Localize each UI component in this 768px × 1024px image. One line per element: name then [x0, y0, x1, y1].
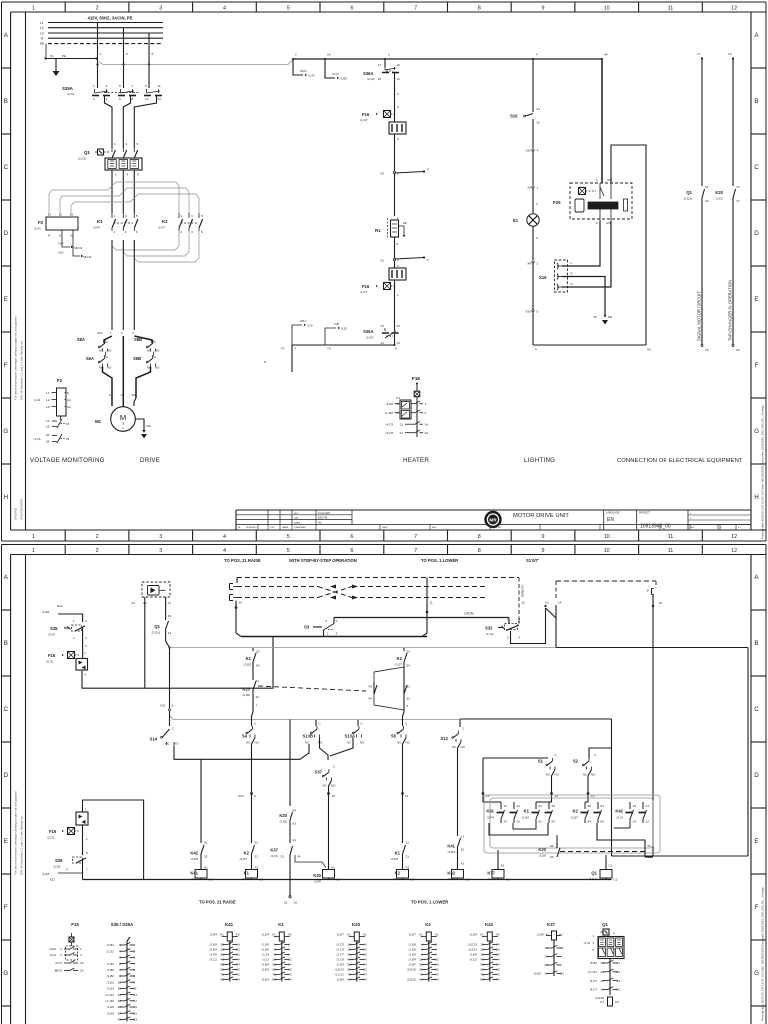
svg-text:11: 11	[405, 794, 408, 798]
svg-text:55: 55	[588, 804, 592, 808]
svg-text:12: 12	[731, 5, 737, 11]
svg-text:4: 4	[223, 534, 226, 540]
svg-text:4/N: 4/N	[606, 221, 611, 225]
svg-text:4: 4	[223, 5, 226, 11]
svg-text:X25: X25	[525, 149, 531, 153]
svg-text:/2,C5: /2,C5	[335, 943, 344, 947]
svg-text:K2: K2	[573, 809, 579, 814]
svg-text:/1,C12: /1,C12	[334, 973, 344, 977]
svg-text:X8: X8	[527, 262, 531, 266]
svg-text:A2: A2	[496, 933, 500, 937]
svg-text:44: 44	[369, 697, 373, 701]
F2 output contacts	[60, 416, 62, 420]
svg-text:11: 11	[668, 5, 674, 11]
svg-text:C: C	[319, 722, 321, 726]
svg-text:S8A: S8A	[77, 337, 85, 342]
svg-text:M1: M1	[95, 419, 102, 424]
svg-text:14: 14	[425, 423, 429, 427]
svg-text:Q1: Q1	[154, 624, 160, 629]
svg-text:N: N	[48, 234, 50, 238]
svg-text:/5,B3: /5,B3	[589, 961, 598, 965]
svg-text:F16: F16	[362, 284, 370, 289]
svg-text:/1,B2: /1,B2	[106, 962, 115, 966]
svg-text:/2,E9: /2,E9	[336, 978, 345, 982]
svg-text:/2,E15: /2,E15	[467, 943, 477, 947]
svg-text:1: 1	[425, 402, 427, 406]
svg-text:D: D	[4, 230, 9, 237]
svg-text:84: 84	[588, 820, 592, 824]
svg-text:/2,G2: /2,G2	[366, 77, 375, 81]
terminal X1 PE with earth	[45, 44, 47, 59]
svg-text:Printing date 2024-03-14T12:07: Printing date 2024-03-14T12:07:13 Order:…	[761, 405, 765, 539]
lighting return rail	[533, 344, 646, 346]
svg-text:A1: A1	[419, 933, 423, 937]
svg-text:D: D	[754, 772, 759, 779]
svg-text:/2,C4: /2,C4	[335, 948, 344, 952]
svg-text:/1,E6: /1,E6	[41, 610, 50, 614]
svg-text:/2,G1: /2,G1	[45, 660, 54, 664]
ground symbol	[53, 71, 60, 76]
svg-text:10913943_00: 10913943_00	[640, 524, 671, 530]
svg-text:G: G	[3, 970, 8, 977]
svg-text:2: 2	[93, 97, 95, 101]
svg-text:A2: A2	[288, 933, 292, 937]
svg-text:A1: A1	[67, 398, 71, 402]
svg-text:4: 4	[191, 230, 193, 234]
svg-text:REV.: REV.	[432, 527, 437, 529]
svg-text:CONNECTION OF ELECTRICAL EQUIP: CONNECTION OF ELECTRICAL EQUIPMENT	[617, 458, 743, 464]
svg-text:Für diese technische Unterlage: Für diese technische Unterlage Umfang so…	[14, 791, 18, 875]
svg-text:11: 11	[668, 548, 674, 554]
svg-text:22: 22	[381, 324, 385, 328]
svg-text:L1: L1	[46, 391, 50, 395]
wire S1 0/7 drop	[652, 595, 654, 857]
X19 wires	[562, 221, 600, 266]
svg-text:TO POS. 21 RAISE: TO POS. 21 RAISE	[224, 558, 261, 563]
svg-text:1: 1	[114, 214, 116, 218]
svg-text:NO: NO	[107, 349, 112, 353]
svg-text:Q1: Q1	[84, 150, 90, 155]
svg-text:14: 14	[80, 961, 84, 965]
svg-text:C: C	[154, 355, 156, 359]
svg-text:K41: K41	[447, 844, 455, 849]
svg-text:/1,D8: /1,D8	[407, 943, 416, 947]
svg-text:14: 14	[504, 820, 508, 824]
svg-text:A1: A1	[204, 866, 208, 870]
svg-text:S5: S5	[391, 734, 397, 739]
svg-text:F15: F15	[49, 829, 57, 834]
svg-text:X1: X1	[131, 601, 135, 605]
svg-text:10: 10	[604, 534, 610, 540]
svg-text:10: 10	[604, 548, 610, 554]
svg-text:A2: A2	[435, 933, 439, 937]
svg-text:DIN 34 Abschnitt 2.1 und 2.2 a: DIN 34 Abschnitt 2.1 und 2.2 alte Rechte…	[20, 340, 24, 400]
svg-text:PE: PE	[62, 54, 66, 58]
svg-text:/2,D4: /2,D4	[447, 850, 456, 854]
svg-text:13: 13	[545, 601, 549, 605]
wire phase drop 1	[97, 23, 99, 89]
svg-text:REV: REV	[294, 513, 299, 515]
svg-text:C: C	[106, 340, 108, 344]
svg-text:62: 62	[539, 820, 543, 824]
svg-text:LANGUAGE: LANGUAGE	[606, 512, 620, 515]
svg-text:X13I: X13I	[58, 251, 64, 255]
svg-text:MR: MR	[489, 518, 497, 523]
svg-text:Q1: Q1	[591, 871, 597, 876]
svg-text:S6A: S6A	[86, 356, 94, 361]
R1 PE stub	[399, 226, 405, 235]
svg-text:/3,J1: /3,J1	[615, 816, 623, 820]
svg-text:S13B: S13B	[303, 734, 313, 739]
svg-text:F: F	[4, 362, 8, 369]
svg-text:1: 1	[32, 5, 35, 11]
svg-text:6: 6	[407, 704, 409, 708]
svg-text:NC: NC	[583, 773, 587, 777]
svg-text:E1: E1	[513, 218, 519, 223]
svg-text:2: 2	[397, 264, 399, 268]
svg-text:6: 6	[119, 97, 121, 101]
svg-text:16: 16	[46, 419, 50, 423]
wire X1-31 to Q1 aux	[165, 597, 167, 620]
svg-text:S36A: S36A	[363, 329, 373, 334]
svg-text:8: 8	[395, 347, 397, 351]
svg-text:S32: S32	[485, 626, 493, 631]
svg-text:VOLTAGE MONITORING: VOLTAGE MONITORING	[30, 457, 105, 464]
svg-text:/2,E4: /2,E4	[469, 953, 478, 957]
svg-text:NO: NO	[255, 741, 260, 745]
svg-text:7: 7	[414, 548, 417, 554]
svg-text:S6B: S6B	[133, 356, 141, 361]
F16 relay box	[400, 400, 411, 419]
svg-text:4A: 4A	[604, 53, 608, 57]
svg-text:7: 7	[414, 534, 417, 540]
svg-text:K2: K2	[395, 871, 401, 876]
svg-text:L2: L2	[46, 398, 50, 402]
svg-text:18: 18	[46, 425, 50, 429]
wires S35A to Q1	[105, 96, 113, 149]
svg-text:4: 4	[223, 548, 226, 554]
svg-text:22: 22	[646, 820, 650, 824]
svg-text:/2,E5: /2,E5	[533, 972, 542, 976]
svg-text:K1: K1	[244, 871, 250, 876]
svg-text:/1,J2: /1,J2	[583, 941, 591, 945]
svg-text:53: 53	[256, 650, 260, 654]
svg-text:1: 1	[80, 947, 82, 951]
wires K1 to S8A/S6A	[111, 240, 113, 330]
grey routing wires to F2/K2	[49, 186, 112, 215]
wire S37 to K20 coil	[329, 781, 332, 868]
wires S1/S2 cluster	[483, 757, 548, 759]
svg-text:A1: A1	[331, 866, 335, 870]
svg-text:A2: A2	[67, 405, 71, 409]
svg-text:C: C	[172, 727, 174, 731]
wires Q1 to K1	[111, 170, 113, 213]
svg-text:/2,E10: /2,E10	[406, 978, 416, 982]
svg-text:S12: S12	[441, 736, 449, 741]
svg-text:K41: K41	[190, 871, 198, 876]
svg-text:C: C	[754, 706, 759, 713]
column number strip top	[11, 11, 766, 13]
svg-text:SMGSPOD: SMGSPOD	[15, 508, 18, 520]
svg-text:4: 4	[397, 137, 399, 141]
distribution wire node2 to 4A	[293, 58, 602, 60]
svg-text:NAME: NAME	[282, 526, 289, 529]
svg-text:/2,E4: /2,E4	[408, 958, 417, 962]
wire S14 to S13B	[174, 744, 309, 759]
svg-text:/2,D5: /2,D5	[521, 816, 530, 820]
svg-text:24: 24	[297, 855, 301, 859]
svg-text:1: 1	[596, 178, 598, 182]
svg-text:A1: A1	[272, 933, 276, 937]
svg-text:15: 15	[168, 614, 172, 618]
svg-text:X21: X21	[97, 331, 103, 335]
svg-text:/4,C8: /4,C8	[385, 431, 394, 435]
svg-text:S35 / S35A: S35 / S35A	[111, 922, 134, 927]
svg-text:/2,C6: /2,C6	[715, 197, 724, 201]
svg-text:/2,D5: /2,D5	[390, 857, 399, 861]
svg-text:/2,D1): /2,D1)	[77, 157, 86, 161]
svg-text:5007740: 5007740	[318, 517, 328, 520]
svg-text:22: 22	[537, 121, 541, 125]
rail lower grey	[170, 715, 174, 720]
svg-text:63: 63	[293, 822, 297, 826]
svg-text:/3,J1: /3,J1	[49, 953, 57, 957]
svg-text:/2,D5: /2,D5	[243, 663, 252, 667]
svg-text:/1,E5: /1,E5	[41, 872, 50, 876]
svg-text:/4,C7: /4,C7	[589, 988, 598, 992]
svg-text:15: 15	[659, 601, 663, 605]
svg-text:A1: A1	[559, 933, 563, 937]
svg-text:C: C	[106, 355, 108, 359]
svg-text:R1: R1	[375, 228, 381, 233]
svg-text:/2,E16: /2,E16	[406, 968, 416, 972]
svg-text:/3,E1: /3,E1	[48, 947, 56, 951]
svg-text:K2: K2	[425, 922, 431, 927]
svg-text:/2,D2: /2,D2	[52, 865, 61, 869]
svg-text:/2,D6: /2,D6	[279, 820, 288, 824]
svg-text:E12: E12	[57, 604, 63, 608]
svg-text:22: 22	[281, 855, 285, 859]
svg-text:S37: S37	[315, 770, 323, 775]
routing loop dark	[489, 823, 548, 835]
signal contact K20 right	[732, 59, 734, 187]
svg-text:F15I: F15I	[334, 323, 339, 326]
lighting drop from node 4	[532, 59, 534, 112]
svg-text:/2,D1): /2,D1)	[683, 197, 692, 201]
svg-text:A1: A1	[347, 933, 351, 937]
svg-text:4: 4	[537, 149, 539, 153]
wire S4 to K2 aux	[252, 738, 256, 841]
column number strip top	[11, 554, 766, 556]
wire 11 drop	[426, 578, 428, 634]
svg-text:PE: PE	[608, 315, 612, 319]
svg-text:TO POS. 1 LOWER: TO POS. 1 LOWER	[421, 558, 458, 563]
svg-text:K2: K2	[397, 656, 403, 661]
svg-text:64: 64	[550, 844, 554, 848]
svg-text:5: 5	[136, 214, 138, 218]
svg-text:5: 5	[119, 84, 121, 88]
svg-text:NC: NC	[147, 349, 151, 353]
svg-text:F2: F2	[38, 220, 44, 225]
svg-text:K42: K42	[190, 851, 198, 856]
svg-text:NO: NO	[461, 745, 466, 749]
svg-text:.L2: .L2	[58, 213, 62, 217]
svg-text:A2: A2	[545, 933, 549, 937]
svg-text:F: F	[755, 904, 759, 911]
svg-text:2: 2	[427, 167, 429, 171]
svg-text:/2,G2: /2,G2	[105, 949, 114, 953]
aux chain K20/K37	[289, 720, 291, 807]
aux contact K2 53/54	[403, 648, 405, 651]
svg-text:NC: NC	[452, 745, 456, 749]
svg-text:2: 2	[121, 331, 123, 335]
svg-text:/2,E7: /2,E7	[336, 933, 345, 937]
svg-text:V1: V1	[121, 393, 125, 397]
svg-text:5: 5	[287, 534, 290, 540]
svg-text:DIN 34 Abschnitt 2.1 und 2.2 a: DIN 34 Abschnitt 2.1 und 2.2 alte Rechte…	[20, 815, 24, 875]
svg-text:3: 3	[125, 214, 127, 218]
svg-text:18: 18	[705, 348, 709, 352]
svg-text:D: D	[4, 772, 9, 779]
svg-text:~: ~	[122, 426, 125, 431]
svg-text:/2,D7: /2,D7	[570, 816, 579, 820]
svg-text:A1: A1	[501, 864, 505, 868]
svg-text:43: 43	[369, 685, 373, 689]
svg-text:63: 63	[550, 855, 554, 859]
svg-text:/1,D1: /1,D1	[33, 398, 41, 402]
svg-text:22: 22	[255, 841, 259, 845]
svg-text:/3,C1: /3,C1	[208, 958, 217, 962]
svg-text:23: 23	[397, 341, 401, 345]
svg-text:11: 11	[158, 84, 161, 88]
svg-text:K20: K20	[538, 847, 546, 852]
svg-text:9: 9	[254, 794, 256, 798]
wires to motor M1	[103, 367, 113, 407]
F15 connector box	[76, 659, 88, 671]
svg-text:L: L	[571, 261, 573, 265]
wire F15/X1-29 to raise bus	[82, 637, 273, 689]
svg-text:A1: A1	[220, 933, 224, 937]
rail common grey	[170, 647, 557, 649]
svg-text:5: 5	[287, 5, 290, 11]
svg-text:F: F	[647, 589, 649, 593]
svg-text:2: 2	[114, 230, 116, 234]
svg-text:/1,D9: /1,D9	[407, 948, 416, 952]
svg-text:F2: F2	[57, 378, 63, 383]
svg-text:/2,B1: /2,B1	[106, 943, 115, 947]
svg-text:/2,C9: /2,C9	[270, 854, 279, 858]
svg-text:NC: NC	[347, 741, 351, 745]
svg-text:53: 53	[407, 650, 411, 654]
svg-text:SHT: SHT	[690, 527, 695, 529]
svg-text:K2: K2	[244, 851, 250, 856]
svg-text:6: 6	[350, 534, 353, 540]
svg-text:NC: NC	[397, 741, 401, 745]
svg-text:/1,C8: /1,C8	[33, 437, 41, 441]
svg-text:/1,D4: /1,D4	[407, 953, 416, 957]
svg-text:64: 64	[293, 809, 297, 813]
svg-text:/2,E9: /2,E9	[209, 948, 218, 952]
svg-text:L3: L3	[46, 405, 50, 409]
svg-text:5: 5	[537, 310, 539, 314]
svg-text:S35.7: S35.7	[300, 320, 307, 323]
dashed remote drop	[518, 578, 520, 622]
svg-text:F: F	[4, 904, 8, 911]
svg-text:9: 9	[542, 5, 545, 11]
svg-text:5: 5	[201, 214, 203, 218]
svg-text:F: F	[755, 362, 759, 369]
svg-text:S1'0/7': S1'0/7'	[526, 558, 539, 563]
cross-ref stub X7 N	[325, 59, 335, 78]
svg-text:1: 1	[32, 534, 35, 540]
svg-text:17: 17	[697, 52, 701, 56]
svg-text:NC: NC	[166, 742, 170, 746]
svg-text:1: 1	[397, 172, 399, 176]
svg-text:62: 62	[648, 844, 652, 848]
svg-text:TAP-CHANGER IN OPERATION: TAP-CHANGER IN OPERATION	[728, 280, 733, 341]
wires S13 to S37	[320, 738, 329, 761]
wire phase drop 2	[123, 28, 125, 88]
svg-text:L2: L2	[40, 26, 44, 30]
svg-text:1: 1	[537, 186, 539, 190]
svg-text:/2,G7: /2,G7	[393, 663, 402, 667]
svg-text:S35A: S35A	[62, 86, 74, 91]
svg-text:/3,E3: /3,E3	[340, 328, 347, 331]
svg-text:18: 18	[378, 77, 382, 81]
svg-text:2: 2	[85, 808, 87, 812]
svg-text:DRIVE: DRIVE	[140, 457, 160, 464]
svg-text:NO: NO	[406, 741, 411, 745]
svg-text:K37: K37	[487, 871, 495, 876]
svg-text:3: 3	[80, 953, 82, 957]
svg-text:K1: K1	[246, 656, 252, 661]
svg-text:K20: K20	[242, 687, 250, 692]
svg-text:12: 12	[731, 548, 737, 554]
wire S5 to K1 aux	[403, 738, 407, 841]
svg-text:.L3: .L3	[69, 213, 73, 217]
svg-text:S35: S35	[55, 858, 63, 863]
svg-text:L1: L1	[40, 21, 44, 25]
svg-text:NO: NO	[174, 742, 179, 746]
K37 jog to K20 coil	[295, 855, 326, 868]
svg-text:3: 3	[397, 92, 399, 96]
svg-text:K1: K1	[524, 809, 530, 814]
motor PE wire + ground	[135, 419, 144, 430]
svg-text:8: 8	[478, 5, 481, 11]
svg-text:1: 1	[397, 216, 399, 220]
svg-text:63: 63	[552, 804, 556, 808]
svg-text:28: 28	[46, 440, 50, 444]
svg-text:22: 22	[705, 199, 709, 203]
svg-text:NO: NO	[107, 366, 112, 370]
svg-text:3: 3	[191, 214, 193, 218]
svg-text:A1: A1	[406, 866, 410, 870]
svg-text:/2,F2: /2,F2	[47, 633, 55, 637]
svg-text:/2,D7: /2,D7	[239, 857, 248, 861]
svg-text:24: 24	[397, 324, 401, 328]
svg-text:64: 64	[552, 820, 556, 824]
svg-text:S14: S14	[150, 737, 158, 742]
svg-text:1: 1	[397, 293, 399, 297]
svg-text:A1: A1	[461, 862, 465, 866]
svg-text:SIGNAL MOTOR CIRCUIT: SIGNAL MOTOR CIRCUIT	[697, 291, 702, 341]
svg-text:2A: 2A	[327, 53, 331, 57]
svg-text:/4,C5: /4,C5	[54, 961, 62, 965]
svg-text:K20: K20	[352, 922, 361, 927]
svg-text:32: 32	[461, 848, 465, 852]
svg-text:C1: C1	[609, 864, 613, 868]
svg-text:C: C	[4, 706, 9, 713]
